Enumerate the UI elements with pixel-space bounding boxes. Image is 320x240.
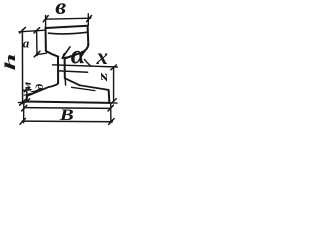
foot bottom right extension (109, 102, 117, 104)
a dimension line (36, 30, 38, 55)
B dim left extension line (23, 103, 25, 123)
cluster stroke 1 (32, 91, 38, 92)
underside-left extension line (38, 53, 47, 54)
B dimension line (22, 120, 112, 123)
m dim extension (23, 89, 31, 92)
svg-text:В: В (59, 106, 74, 124)
top dim right extension line (87, 14, 89, 26)
B dim right extension line (110, 103, 112, 123)
second horizontal reference line (59, 71, 88, 72)
svg-text:в: в (55, 0, 66, 20)
top dim left extension line (45, 15, 47, 27)
top dimension line b (46, 18, 91, 19)
alpha leader arrow (62, 47, 70, 58)
h dimension line (21, 30, 23, 104)
foot left fillet and slope (28, 83, 58, 95)
web right lower stub (64, 79, 66, 86)
a dim top tick (34, 28, 40, 33)
B dim right tick (109, 119, 114, 125)
z dim top tick (111, 65, 117, 70)
m dim bottom tick (24, 99, 29, 103)
rail head right edge (87, 26, 90, 45)
a dim bottom tick (34, 51, 40, 57)
cluster stroke 2 (24, 93, 31, 95)
upper dim right tick (108, 105, 113, 111)
B dim left tick (20, 118, 25, 124)
foot left edge (26, 96, 28, 102)
svg-text:д: д (35, 84, 46, 90)
alpha tail stroke (85, 60, 92, 67)
head underside right slope (65, 45, 89, 59)
foot right slope (80, 85, 109, 90)
foot right edge (108, 90, 111, 103)
svg-text:h: h (3, 53, 18, 70)
svg-text:z: z (96, 72, 110, 82)
rail head left edge (45, 28, 47, 51)
svg-text:a: a (23, 36, 30, 51)
web left edge (57, 57, 59, 84)
head underside left slope (46, 51, 58, 57)
left top extension line (19, 30, 45, 32)
m dim top tick (24, 88, 29, 92)
svg-text:м: м (21, 82, 33, 92)
upper width dimension line (24, 107, 110, 110)
web right edge (64, 59, 66, 79)
z dimension line (113, 67, 115, 101)
foot right slope second line (72, 87, 96, 90)
x-axis line (53, 65, 118, 67)
rail head inner top line (49, 32, 87, 34)
z dim bottom tick (111, 99, 117, 104)
h dim top tick (20, 27, 26, 33)
top dim left tick (43, 16, 48, 22)
foot bottom line (27, 102, 110, 103)
svg-text:α: α (71, 39, 87, 69)
top dim right tick (87, 15, 92, 21)
svg-text:x: x (96, 44, 109, 69)
foot right fillet diagonal (65, 78, 80, 85)
d leader tick (34, 89, 41, 93)
h dim bottom tick (20, 99, 26, 105)
bottom-left extension line (18, 101, 27, 104)
upper dim left tick (22, 105, 27, 111)
m small dimension line (26, 90, 28, 101)
rail head top line (46, 26, 88, 28)
